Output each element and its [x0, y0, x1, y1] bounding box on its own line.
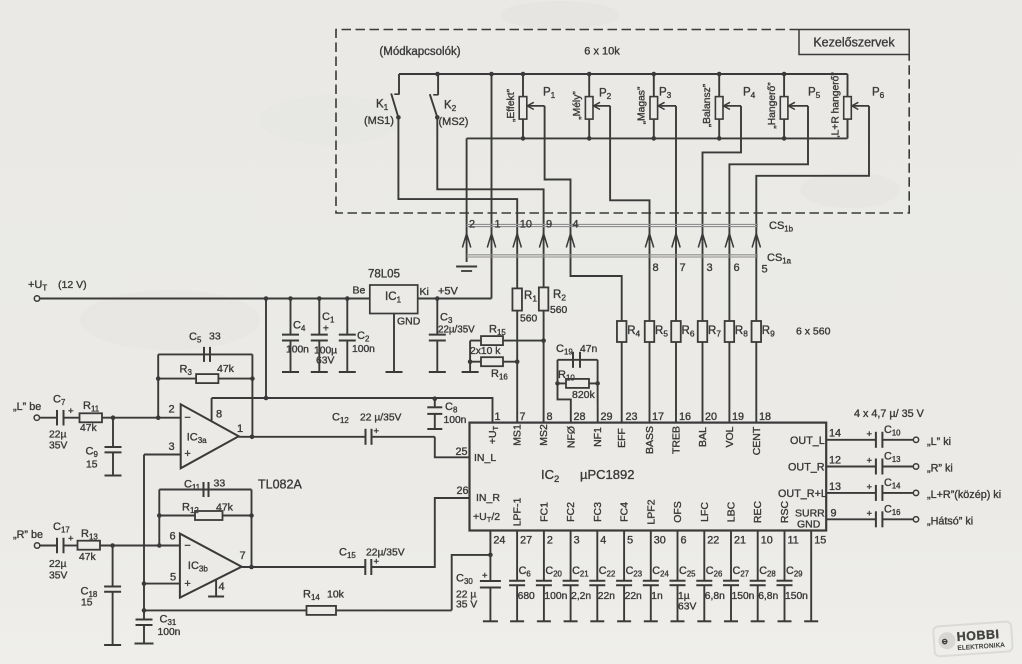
- node R16 to R1 column: [515, 359, 520, 364]
- svg-text:19: 19: [732, 411, 744, 423]
- svg-text:28: 28: [574, 411, 586, 423]
- IC U2 uPC1892 body: [470, 423, 827, 531]
- svg-text:„R” ki: „R” ki: [927, 463, 953, 475]
- connector pin arrow: [462, 234, 470, 248]
- wiper P6 wire to connector pin 5 and R9: [852, 102, 859, 109]
- wire C15 to chip pin 26 IN_R: [371, 498, 469, 567]
- wire C19 R10 left loop: [557, 360, 559, 384]
- svg-text:BASS: BASS: [644, 426, 656, 454]
- svg-text:Be: Be: [353, 285, 366, 297]
- capacitor C23 22n: [623, 531, 625, 581]
- wire connector pin 1 +5V riser: [491, 74, 493, 299]
- svg-text:FC4: FC4: [619, 502, 631, 522]
- svg-text:−: −: [184, 540, 190, 552]
- svg-text:„L+R hangerő”: „L+R hangerő”: [830, 72, 841, 139]
- svg-text:22µ: 22µ: [49, 559, 66, 570]
- svg-text:+: +: [867, 508, 873, 519]
- resistor R10 820k: [558, 382, 598, 384]
- svg-text:1: 1: [237, 423, 243, 435]
- node C1 tap: [317, 296, 322, 301]
- svg-text:EFF: EFF: [616, 428, 628, 448]
- resistor R13 47k: [78, 541, 101, 550]
- node R12 right: [249, 513, 254, 518]
- wiper P5 wire to connector pin 6 and R8: [788, 102, 795, 109]
- wire opamp pin 4 ground: [215, 580, 217, 597]
- wire R10 left node to chip pin 28: [558, 383, 571, 422]
- wire C13 to output terminal: [882, 466, 913, 468]
- wire IC1 GND lead: [393, 314, 395, 373]
- bus CS1b: [467, 223, 758, 225]
- svg-text:26: 26: [457, 485, 469, 497]
- svg-text:+: +: [482, 571, 488, 582]
- wire R10 right node to chip pin 29: [597, 383, 599, 422]
- resistor R14 10k: [144, 609, 307, 611]
- capacitor C10 4.7u: [875, 432, 877, 448]
- svg-text:„R” be: „R” be: [13, 529, 43, 541]
- switch K1 (MS1): [398, 74, 400, 94]
- svg-text:4: 4: [600, 535, 606, 547]
- svg-text:560: 560: [550, 305, 567, 316]
- svg-text:TL082A: TL082A: [258, 478, 302, 492]
- node feedback tap R: [157, 543, 162, 548]
- svg-text:+: +: [184, 578, 190, 590]
- resistor R16 10k: [470, 361, 517, 363]
- svg-text:47n: 47n: [580, 344, 597, 355]
- potentiometer P4 „Balansz”: [718, 74, 720, 97]
- svg-text:3: 3: [574, 535, 580, 547]
- wire L input to C7: [40, 417, 57, 419]
- svg-text:4: 4: [219, 581, 225, 593]
- svg-text:100n: 100n: [286, 345, 309, 356]
- terminal +UT input: [34, 296, 39, 301]
- terminal output „Hátsó” ki: [913, 517, 918, 522]
- svg-text:NFØ: NFØ: [565, 426, 577, 448]
- svg-text:IN_L: IN_L: [474, 452, 496, 464]
- wiper P3 wire to connector pin 7 and R6: [658, 102, 665, 109]
- capacitor C25 1µ: [677, 531, 679, 581]
- svg-text:7: 7: [680, 262, 686, 274]
- capacitor C3 22u/35V: [436, 299, 438, 335]
- svg-text:18: 18: [759, 411, 771, 423]
- svg-text:47k: 47k: [80, 423, 97, 434]
- op-amp IC3b TL082: [180, 534, 242, 598]
- svg-text:100n: 100n: [544, 591, 567, 602]
- potentiometer P2 „Mély”: [588, 74, 590, 97]
- svg-text:47k: 47k: [216, 502, 234, 514]
- svg-text:(MS2): (MS2): [439, 116, 469, 128]
- terminal output „L” ki: [913, 437, 918, 442]
- wire K1 to connector pin 10: [398, 117, 517, 288]
- capacitor C21 2,2n: [570, 531, 572, 581]
- node K2 top on bus: [435, 72, 440, 77]
- svg-text:5: 5: [170, 572, 176, 584]
- wiper P4 wire to connector pin 3 and R7: [724, 102, 731, 109]
- node R10 left: [555, 381, 560, 386]
- svg-text:15: 15: [86, 460, 98, 471]
- svg-text:8: 8: [547, 411, 553, 423]
- svg-text:17: 17: [652, 411, 664, 423]
- svg-text:35 V: 35 V: [456, 600, 477, 611]
- capacitor C18 15p: [112, 546, 114, 587]
- svg-text:25: 25: [456, 446, 468, 458]
- capacitor C16 4.7u: [875, 511, 877, 527]
- svg-text:IN_R: IN_R: [476, 492, 500, 504]
- wire C10 to output terminal: [882, 439, 913, 441]
- svg-text:30: 30: [654, 535, 666, 547]
- resistor R3 47k feedback: [158, 378, 252, 380]
- capacitor C5 33p feedback: [158, 353, 252, 355]
- svg-text:GND: GND: [797, 519, 821, 531]
- svg-text:15: 15: [81, 598, 93, 609]
- svg-text:VOL: VOL: [724, 426, 736, 447]
- dashed box Kezeloszervek control board: [336, 30, 909, 214]
- wire C19 R10 right loop: [597, 360, 599, 384]
- resistor R12 47k feedback: [159, 515, 251, 517]
- svg-text:9: 9: [831, 508, 837, 520]
- svg-text:22: 22: [707, 535, 719, 547]
- connector pin arrow: [513, 234, 521, 248]
- svg-text:27: 27: [520, 535, 532, 547]
- wire chip pin 9 output: [826, 518, 876, 520]
- svg-text:FC3: FC3: [592, 502, 604, 522]
- capacitor C24 1n: [650, 531, 652, 581]
- wire R1 to chip pin 7: [516, 311, 518, 423]
- svg-text:13: 13: [829, 481, 841, 493]
- svg-text:22n: 22n: [625, 591, 642, 602]
- svg-text:2: 2: [169, 404, 175, 416]
- wire K2 to connector pin 9: [437, 117, 543, 287]
- svg-text:„L” be: „L” be: [13, 401, 41, 413]
- svg-text:1: 1: [495, 411, 501, 423]
- wire R9 to chip pin: [755, 342, 757, 423]
- wire opamp pin 5 bias: [144, 583, 180, 585]
- svg-text:6,8n: 6,8n: [705, 591, 725, 602]
- resistor R4 560: [617, 321, 627, 342]
- regulator IC1 78L05: [370, 285, 418, 314]
- wire connector pin 2 to ground: [466, 138, 468, 262]
- wire R8 to chip pin: [728, 342, 730, 423]
- svg-text:LFC: LFC: [699, 502, 711, 522]
- svg-text:14: 14: [829, 428, 841, 440]
- wire C12 to IN_L node: [372, 436, 435, 438]
- capacitor C19 47n: [558, 359, 598, 361]
- svg-text:„Hátsó” ki: „Hátsó” ki: [927, 515, 973, 527]
- wire R6 to chip pin: [675, 342, 677, 423]
- svg-text:7: 7: [240, 550, 246, 562]
- wire opamp L output to C12: [239, 436, 366, 438]
- svg-text:„Mély”: „Mély”: [572, 91, 583, 120]
- resistor R8 560: [725, 321, 735, 342]
- svg-text:100n: 100n: [444, 415, 467, 426]
- svg-text:6 x 560: 6 x 560: [796, 326, 831, 338]
- svg-text:1: 1: [495, 219, 501, 231]
- wire R5 to chip pin: [649, 342, 651, 423]
- svg-text:TREB: TREB: [670, 426, 682, 454]
- capacitor C31 100n: [136, 619, 153, 621]
- potentiometer P3 „Magas”: [653, 74, 655, 97]
- wire chip pin 15 to ground: [810, 531, 812, 622]
- node C18 tap: [110, 543, 115, 548]
- svg-text:OUT_R+L: OUT_R+L: [778, 488, 827, 500]
- svg-text:Kezelőszervek: Kezelőszervek: [813, 36, 895, 50]
- svg-text:5: 5: [762, 264, 768, 276]
- svg-text:63V: 63V: [678, 602, 696, 613]
- capacitor C27 150n: [730, 531, 732, 581]
- svg-text:8: 8: [216, 409, 222, 421]
- svg-text:+: +: [184, 448, 190, 460]
- svg-text:12: 12: [829, 455, 841, 467]
- wire C14 to output terminal: [882, 492, 913, 494]
- wire R11 to opamp pin 2: [102, 417, 181, 419]
- capacitor C28 6,8n: [757, 531, 759, 581]
- node R14 bias: [142, 608, 147, 613]
- svg-text:(12 V): (12 V): [58, 279, 87, 291]
- svg-text:20: 20: [705, 411, 717, 423]
- wire R15 R16 left node: [469, 341, 471, 372]
- node R12 left: [157, 513, 162, 518]
- svg-text:+: +: [68, 534, 74, 545]
- connector pin arrow: [645, 234, 653, 248]
- wire R4 to chip pin: [621, 342, 623, 423]
- wire C12 to chip pin 25 IN_L: [435, 437, 470, 458]
- wire R2 to chip pin 8: [543, 311, 545, 423]
- svg-text:FC1: FC1: [538, 502, 550, 522]
- svg-text:150n: 150n: [732, 591, 755, 602]
- svg-text:24: 24: [493, 535, 505, 547]
- svg-text:2x10 k: 2x10 k: [470, 346, 501, 357]
- wire opamp pin 3 bias: [144, 454, 181, 456]
- svg-text:23: 23: [626, 411, 638, 423]
- svg-text:OUT_R: OUT_R: [788, 462, 825, 474]
- svg-text:3: 3: [707, 262, 713, 274]
- wire +5V from IC1 to connector pin 1: [418, 298, 492, 300]
- ground C8: [427, 428, 442, 430]
- op-amp IC3a TL082: [181, 404, 239, 468]
- svg-text:100n: 100n: [352, 344, 375, 355]
- svg-text:47k: 47k: [79, 552, 96, 563]
- terminal output „R” ki: [913, 464, 918, 469]
- svg-text:11: 11: [788, 535, 799, 547]
- capacitor C7 22u/35V: [56, 410, 58, 426]
- wire chip pin 24 stub: [489, 531, 491, 555]
- svg-text:+: +: [867, 482, 873, 493]
- svg-text:21: 21: [734, 535, 746, 547]
- resistor R2 560: [539, 287, 549, 310]
- node C8 tap: [433, 396, 438, 401]
- svg-text:CENT: CENT: [751, 426, 763, 455]
- svg-text:1µ: 1µ: [678, 591, 690, 602]
- connector pin arrow: [672, 234, 680, 248]
- svg-text:(Módkapcsolók): (Módkapcsolók): [379, 46, 460, 58]
- capacitor C1 100u/63V: [318, 299, 320, 335]
- svg-text:78L05: 78L05: [368, 269, 400, 281]
- capacitor C20 100n: [543, 531, 545, 581]
- svg-text:HOBBI: HOBBI: [956, 627, 1000, 644]
- capacitor C9 15p: [112, 418, 114, 447]
- svg-text:2: 2: [547, 535, 553, 547]
- svg-text:4: 4: [573, 219, 579, 231]
- node connector-1 wire on bus: [489, 72, 494, 77]
- svg-text:8: 8: [653, 262, 659, 274]
- svg-text:„L+R”(közép) ki: „L+R”(közép) ki: [927, 489, 1001, 501]
- svg-text:16: 16: [679, 411, 691, 423]
- terminal R input: [34, 543, 39, 548]
- svg-text:FC2: FC2: [565, 502, 577, 522]
- svg-text:2: 2: [469, 219, 475, 231]
- svg-text:1n: 1n: [651, 591, 663, 602]
- svg-text:560: 560: [520, 314, 537, 325]
- svg-text:6: 6: [734, 262, 740, 274]
- label box Kezeloszervek: [799, 30, 909, 55]
- wire C7 to R11: [64, 417, 80, 419]
- connector pin arrow: [539, 234, 547, 248]
- ground R15 R16: [462, 371, 479, 373]
- capacitor C15 22u/35V: [364, 559, 366, 575]
- svg-text:µPC1892: µPC1892: [580, 467, 634, 482]
- capacitor C13 4.7u: [875, 459, 877, 475]
- wire +12V down to +UT rail: [265, 299, 267, 399]
- wire R13 to opamp pin 6: [100, 545, 180, 547]
- potentiometer P1 „Effekt”: [522, 74, 524, 97]
- svg-text:6: 6: [681, 535, 687, 547]
- capacitor C4 100n: [290, 299, 292, 335]
- wire R14 to chip pin 24: [452, 555, 491, 611]
- ground connector pin 2: [456, 266, 477, 268]
- wire bias rail opamp + inputs: [143, 455, 145, 620]
- svg-text:MS1: MS1: [512, 424, 524, 446]
- svg-text:−: −: [184, 412, 190, 424]
- svg-text:22µ/35V: 22µ/35V: [366, 548, 405, 559]
- svg-text:820k: 820k: [572, 389, 596, 401]
- svg-text:+: +: [867, 429, 873, 440]
- node feedback tap L: [156, 415, 161, 420]
- resistor R7 560: [698, 321, 708, 342]
- svg-text:22 µ/35V: 22 µ/35V: [360, 413, 402, 424]
- wire ground bottom bus of pots: [467, 137, 848, 139]
- capacitor C22 22n: [596, 531, 598, 581]
- svg-text:„Hangerő”: „Hangerő”: [767, 82, 778, 129]
- svg-text:„Balansz”: „Balansz”: [702, 83, 713, 127]
- resistor R15 10k: [470, 340, 544, 342]
- wire R input to C17: [40, 545, 57, 547]
- svg-text:MS2: MS2: [538, 424, 550, 446]
- node C2 tap: [345, 296, 350, 301]
- svg-text:7: 7: [520, 411, 526, 423]
- wire chip pin 13 output: [826, 492, 876, 494]
- connector pin arrow: [698, 234, 706, 248]
- svg-text:REC: REC: [752, 500, 764, 523]
- connector pin arrow: [487, 234, 495, 248]
- svg-text:+5V: +5V: [438, 286, 459, 298]
- wiper P1 wire to connector pin 4 and R4: [527, 102, 534, 109]
- resistor R9 560: [752, 321, 762, 342]
- connector pin arrow: [725, 234, 733, 248]
- wire feedback right vertical L: [251, 354, 253, 436]
- svg-text:6,8n: 6,8n: [758, 591, 778, 602]
- switch K2 (MS2): [437, 74, 439, 95]
- svg-text:3: 3: [169, 441, 175, 453]
- svg-text:BAL: BAL: [697, 427, 709, 447]
- node opamp L output: [250, 435, 255, 440]
- potentiometer P6 „L+R hangerő”: [847, 74, 849, 97]
- resistor R5 560: [645, 321, 655, 342]
- potentiometer P5 „Hangerő”: [783, 74, 785, 97]
- svg-text:OUT_L: OUT_L: [790, 435, 825, 447]
- svg-text:100n: 100n: [158, 627, 181, 638]
- node C3 tap: [435, 296, 440, 301]
- capacitor C17 22u/35V: [56, 538, 58, 554]
- svg-text:10: 10: [520, 219, 532, 231]
- svg-text:+: +: [374, 426, 380, 437]
- svg-text:150n: 150n: [785, 591, 808, 602]
- svg-text:10: 10: [761, 535, 773, 547]
- svg-text:+: +: [68, 406, 74, 417]
- wire R7 to chip pin: [702, 342, 704, 423]
- svg-text:680: 680: [518, 591, 535, 602]
- capacitor C6 680: [516, 531, 518, 581]
- svg-text:NF1: NF1: [592, 427, 604, 447]
- wire +5V top bus in control box: [399, 73, 848, 75]
- capacitor C8 100n: [434, 398, 436, 407]
- wiper P2 wire to connector pin 8 and R5: [594, 102, 601, 109]
- wire chip pin 12 output: [826, 466, 876, 468]
- svg-text:33: 33: [209, 331, 221, 343]
- svg-text:GND: GND: [397, 316, 421, 328]
- svg-text:22µ: 22µ: [49, 430, 66, 441]
- svg-text:„Magas”: „Magas”: [637, 86, 648, 124]
- wire feedback right vertical R: [251, 490, 253, 568]
- svg-text:RSC: RSC: [779, 500, 791, 523]
- node pin 24 / C30: [488, 553, 493, 558]
- node R10 right: [595, 381, 600, 386]
- node pin5 bias: [142, 581, 147, 586]
- wire feedback left vertical R: [158, 490, 160, 546]
- svg-text:5: 5: [627, 535, 633, 547]
- bus CS1a: [467, 254, 758, 256]
- resistor R1 560: [512, 288, 522, 310]
- node C4 tap: [288, 296, 293, 301]
- svg-text:OFS: OFS: [672, 501, 684, 523]
- svg-text:33: 33: [214, 478, 226, 490]
- svg-text:„Effekt”: „Effekt”: [506, 88, 517, 122]
- terminal L input: [34, 415, 39, 420]
- wire +UT rail to chip pin 1: [212, 398, 493, 423]
- capacitor C11 33p feedback: [159, 489, 251, 491]
- svg-text:4 x 4,7 µ/ 35 V: 4 x 4,7 µ/ 35 V: [854, 408, 925, 420]
- svg-text:2,2n: 2,2n: [571, 591, 591, 602]
- svg-text:22n: 22n: [598, 591, 615, 602]
- svg-text:22µ/35V: 22µ/35V: [438, 325, 475, 336]
- terminal output „L+R”(közép) ki: [913, 490, 918, 495]
- capacitor C2 100n: [346, 299, 348, 335]
- node opamp supply tap: [264, 396, 269, 401]
- node R3 left: [156, 376, 161, 381]
- node +12V to opamp supply: [264, 296, 269, 301]
- node R15 R16 left: [468, 359, 473, 364]
- svg-text:„L” ki: „L” ki: [927, 436, 951, 448]
- svg-text:29: 29: [601, 411, 613, 423]
- node R15 to R2 column: [541, 338, 546, 343]
- svg-text:+: +: [867, 456, 873, 467]
- svg-text:LPF2: LPF2: [645, 499, 657, 524]
- wire opamp R output to C15: [242, 566, 366, 568]
- wire +12V rail: [40, 298, 370, 300]
- wire C17 to R13: [64, 545, 78, 547]
- resistor R11 47k: [80, 413, 103, 422]
- node R3 right: [250, 376, 255, 381]
- capacitor C12 22u/35V: [365, 429, 367, 445]
- capacitor C29 150n: [784, 531, 786, 581]
